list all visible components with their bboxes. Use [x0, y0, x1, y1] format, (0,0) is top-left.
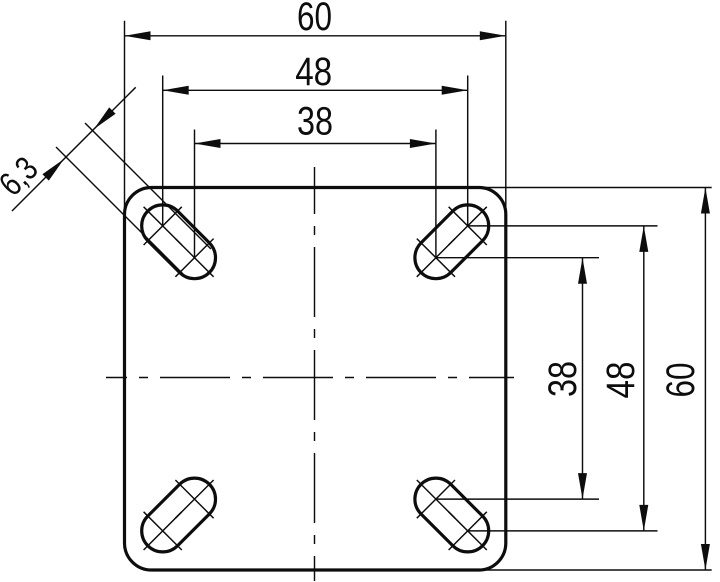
slot bottom-right crosshairs — [417, 480, 487, 550]
dimension 60 top text — [297, 0, 332, 39]
dimension 38 right arrows — [578, 258, 587, 499]
dimension 38 right line — [582, 258, 584, 499]
vertical centerline — [314, 167, 316, 581]
svg-text:48: 48 — [295, 50, 332, 94]
dimension 48 right line — [643, 226, 645, 531]
extension line right edge (60 top) — [505, 21, 507, 222]
extension lines 38 top — [195, 130, 436, 258]
slot width 6,3 extension line lower — [56, 147, 184, 275]
slot width 6,3 text — [0, 150, 46, 204]
extension lines 48 top — [163, 76, 468, 226]
slot width 6,3 arrows — [42, 107, 115, 180]
extension lines right 38 — [436, 258, 599, 499]
svg-text:60: 60 — [297, 0, 332, 39]
extension line left edge (60 top) — [124, 21, 126, 220]
svg-text:38: 38 — [297, 100, 333, 144]
dimension 60 right arrows — [701, 188, 710, 571]
slot top-right — [415, 205, 489, 279]
dimension 60 right text — [659, 363, 703, 398]
slot width 6,3 dimension line — [12, 87, 136, 211]
slot top-left — [142, 205, 216, 279]
slot bottom-left crosshairs — [144, 480, 214, 550]
slot width 6,3 extension line upper — [85, 123, 211, 249]
slot bottom-left — [142, 478, 216, 552]
dimension 60 top line — [125, 35, 506, 37]
extension lines right 48 — [468, 226, 658, 531]
plate outline — [125, 188, 506, 571]
dimension 48 right text — [599, 362, 643, 399]
slot top-right crosshairs — [417, 207, 487, 277]
dimension 38 top text — [297, 100, 333, 144]
dimension 48 top line — [163, 89, 468, 91]
horizontal centerline — [106, 377, 514, 379]
dimension 60 top arrows — [125, 31, 506, 40]
dimension 38 right text — [541, 361, 585, 397]
dimension 48 top text — [295, 50, 332, 94]
svg-text:6,3: 6,3 — [0, 150, 46, 204]
dimension 48 right arrows — [639, 226, 648, 531]
svg-text:38: 38 — [541, 361, 585, 397]
dimension 38 top line — [195, 143, 436, 145]
dimension 60 right line — [704, 188, 706, 571]
extension lines right 60 — [474, 188, 712, 571]
slot bottom-right — [415, 478, 489, 552]
svg-text:60: 60 — [659, 363, 703, 398]
dimension 38 top arrows — [195, 139, 436, 148]
slot top-left crosshairs — [144, 207, 214, 277]
dimension 48 top arrows — [163, 86, 468, 95]
svg-text:48: 48 — [599, 362, 643, 399]
